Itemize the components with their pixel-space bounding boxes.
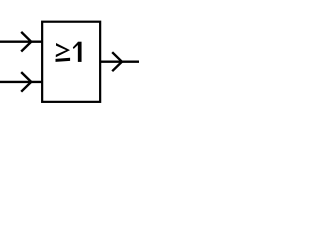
label ">=1" : greater-equal chevron	[56, 43, 70, 57]
wire input A	[0, 41, 42, 43]
label ">=1" : digit 1 stem	[78, 42, 82, 62]
label ">=1" : greater-equal slanted underbar	[56, 58, 71, 62]
arrowhead output Y	[112, 52, 122, 71]
OR gate U1 (IEC rectangle body)	[42, 22, 100, 102]
arrowhead input B	[21, 72, 31, 92]
wire output Y	[100, 61, 139, 63]
wire input B	[0, 81, 42, 83]
arrowhead input A	[21, 32, 31, 52]
label ">=1" : digit 1 flag	[73, 42, 78, 49]
